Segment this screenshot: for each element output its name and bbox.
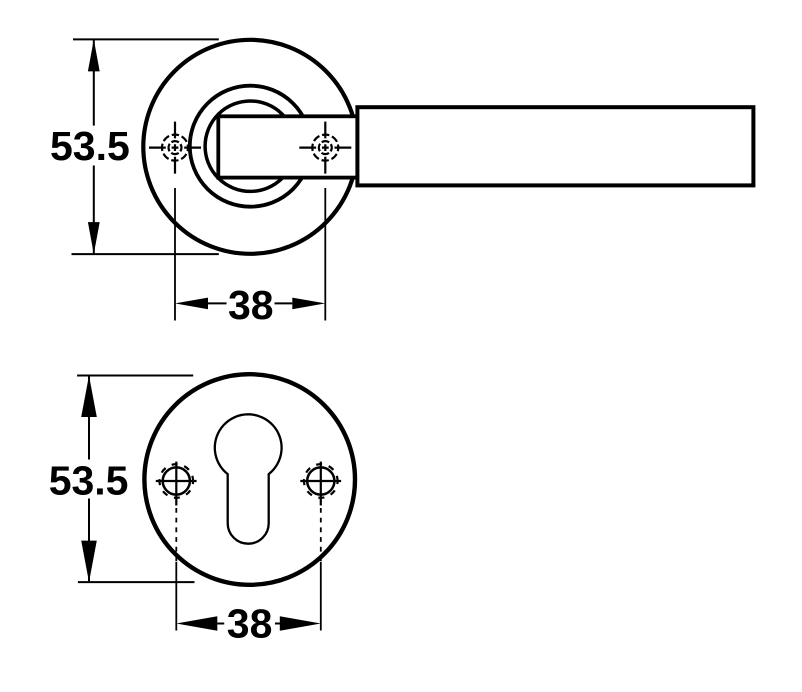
svg-text:53.5: 53.5 — [49, 457, 129, 503]
arrowhead up (bottom 53.5) — [81, 376, 97, 418]
arrowhead right (38 bottom) — [280, 616, 321, 631]
rose outer circle — [143, 40, 357, 254]
screw centre extension line right — [324, 188, 326, 321]
dimension line 53.5 (bottom figure) — [88, 376, 90, 583]
arrowhead left (38 top) — [175, 298, 208, 310]
screw centre extension line left — [174, 188, 176, 321]
euro profile keyhole — [215, 414, 282, 543]
arrowhead down — [88, 222, 100, 254]
dimension line 38 (bottom figure) — [217, 623, 287, 625]
dimension line 53.5 (top figure) — [93, 39, 95, 254]
extension line top (53.5) — [73, 38, 219, 40]
rose neck ring outer circle — [190, 86, 311, 207]
dashed centre line right — [320, 508, 322, 562]
svg-text:53.5: 53.5 — [50, 123, 130, 169]
handle lever bar — [357, 107, 753, 185]
escutcheon circle — [144, 374, 355, 585]
arrowhead right (38 top) — [292, 298, 325, 310]
screw hole left (bottom figure) — [156, 462, 197, 506]
svg-text:38: 38 — [228, 282, 274, 328]
extension line bottom (53.5 bottom figure) — [78, 581, 195, 583]
extension line right (38 bottom) — [320, 562, 322, 631]
screw hole left (top figure) — [149, 122, 201, 174]
handle neck bar — [218, 116, 357, 177]
arrowhead left (38 bottom) — [176, 616, 217, 631]
arrowhead down (bottom 53.5) — [81, 541, 97, 583]
extension line bottom (53.5) — [72, 253, 219, 255]
dimension line 38 (top figure) — [208, 302, 292, 304]
dashed centre line left — [175, 508, 177, 562]
rose neck inner circle — [205, 101, 295, 191]
screw hole right (bottom figure) — [300, 462, 341, 506]
svg-text:38: 38 — [227, 601, 273, 647]
extension line top (53.5 bottom figure) — [77, 375, 193, 377]
arrowhead up — [88, 39, 100, 71]
extension line left (38 bottom) — [175, 562, 177, 631]
screw hole right (top figure) — [299, 122, 351, 174]
